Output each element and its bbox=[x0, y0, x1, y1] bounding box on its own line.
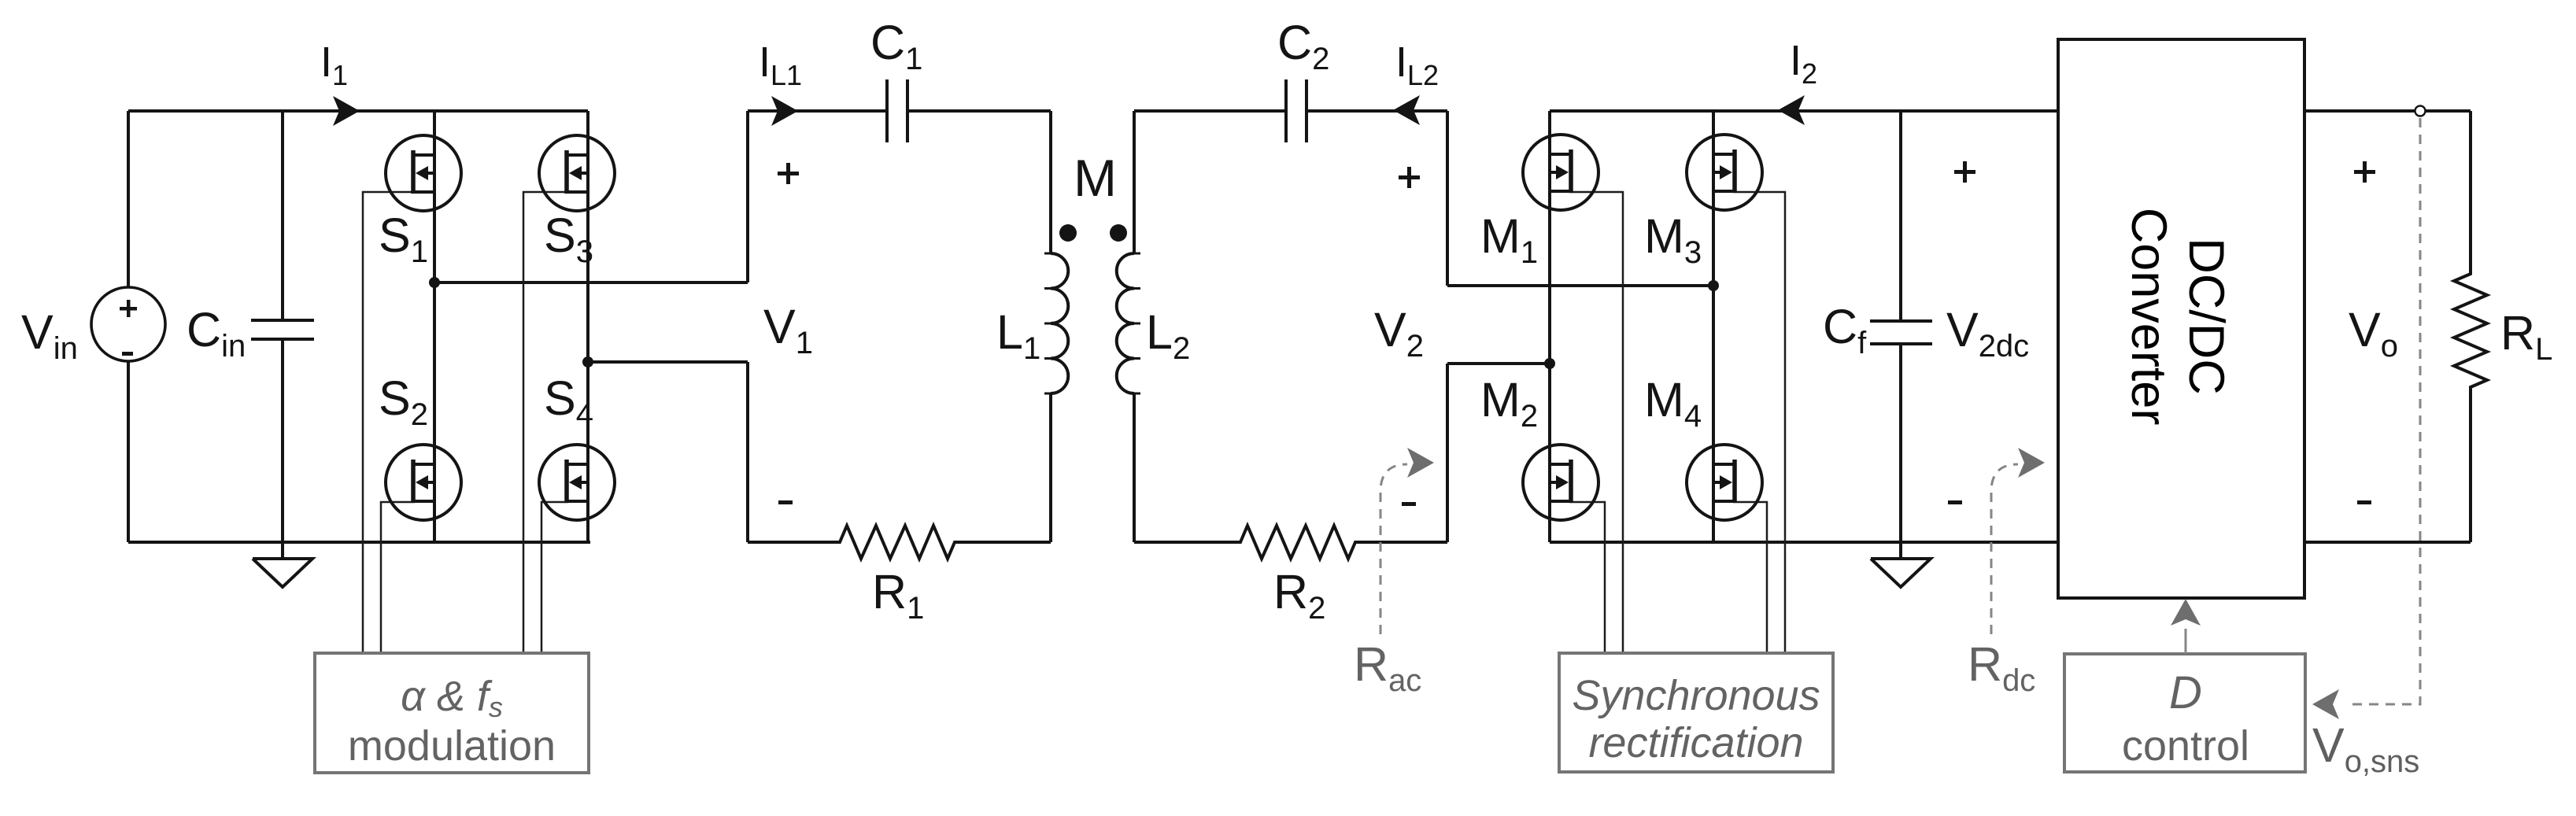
svg-text:Synchronous: Synchronous bbox=[1572, 672, 1820, 719]
svg-text:rectification: rectification bbox=[1588, 719, 1803, 766]
svg-text:α & fs: α & fs bbox=[401, 673, 503, 723]
svg-text:M: M bbox=[1074, 149, 1117, 207]
svg-text:modulation: modulation bbox=[348, 722, 556, 770]
svg-text:control: control bbox=[2122, 722, 2249, 770]
svg-text:D: D bbox=[2169, 667, 2202, 718]
